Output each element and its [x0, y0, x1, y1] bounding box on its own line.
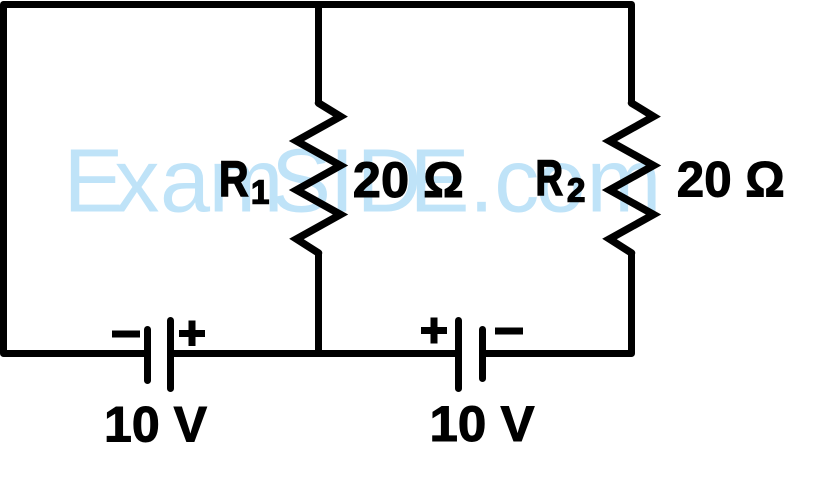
polarity plus sign (V2) [421, 318, 447, 344]
svg-text:2: 2 [567, 172, 585, 209]
svg-text:R: R [536, 150, 564, 206]
battery V2 plate negative (short) [479, 330, 486, 379]
svg-text:10 V: 10 V [430, 396, 536, 452]
polarity plus sign (V1) [179, 321, 205, 347]
wire: right branch bottom (R2 bottom to battery V2 right plate) [486, 253, 632, 354]
wire: bottom bus between battery V1 and battery V2 [172, 350, 457, 357]
wire: outer loop (bottom-left to battery V1, left side, top bus, right side down to R2) [4, 5, 632, 354]
svg-text:R: R [219, 151, 249, 207]
svg-text:1: 1 [251, 174, 269, 211]
resistor R1 [297, 103, 341, 253]
battery V2 plate positive (long) [455, 321, 462, 389]
battery V1 plate negative (short) [144, 330, 151, 381]
svg-text:20 Ω: 20 Ω [677, 152, 785, 208]
wire: middle branch bottom (R1 bottom to bottom bus junction) [315, 253, 322, 357]
polarity minus sign (V1) [112, 331, 140, 338]
battery V1 plate positive (long) [167, 321, 174, 389]
wire: middle branch top (node A to R1 top) [315, 5, 322, 104]
resistor R2 [610, 103, 654, 253]
polarity minus sign (V2) [495, 328, 523, 335]
svg-text:10 V: 10 V [104, 397, 208, 453]
svg-text:20 Ω: 20 Ω [353, 152, 464, 208]
